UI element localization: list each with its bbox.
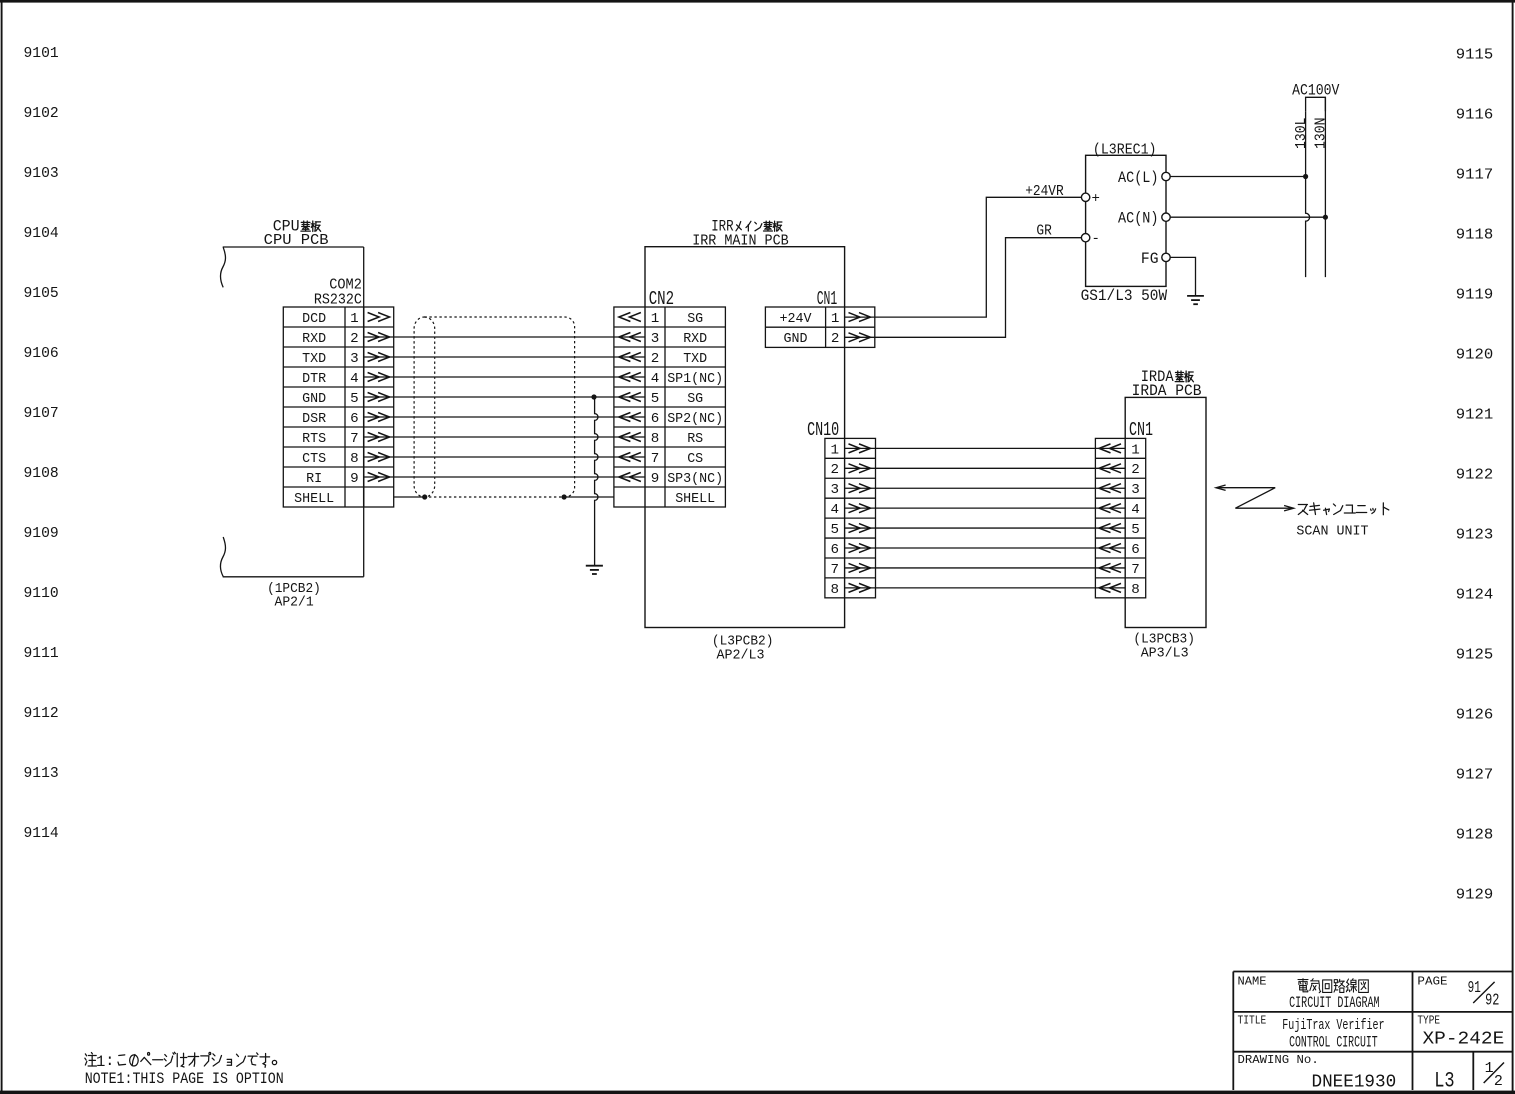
svg-text:1: 1 [1131,442,1140,458]
wire CN10 pin 8 to IRDA CN1 pin 8 [845,587,1126,589]
svg-text:2: 2 [830,462,839,478]
wire COM2 pin 3 to CN2 pin 2 [364,356,645,358]
svg-text:FG: FG [1141,250,1159,268]
svg-text:1: 1 [831,311,840,327]
svg-text:SP2(NC): SP2(NC) [667,411,723,427]
svg-text:9103: 9103 [24,165,59,182]
border frame left line [1,0,3,1094]
connector COM2 table frame [283,307,393,507]
scan unit pointer arrow [1216,488,1294,509]
svg-text:SHELL: SHELL [294,491,334,507]
wire net GR from CN1.2 to power supply - [845,238,1082,338]
wire AC(N) to 130N [1170,216,1325,218]
svg-text:9112: 9112 [24,705,59,722]
svg-text:9102: 9102 [24,105,59,122]
svg-text:6: 6 [1131,542,1140,558]
svg-text:9123: 9123 [1456,526,1494,543]
svg-text:PAGE: PAGE [1417,975,1447,988]
svg-text:RS: RS [687,431,703,447]
svg-text:2: 2 [651,351,660,367]
cable shield end cap stadium [414,317,435,497]
svg-text:5: 5 [651,391,660,407]
svg-text:8: 8 [651,431,660,447]
svg-text:2: 2 [1131,462,1140,478]
svg-text:5: 5 [350,391,359,407]
svg-text:TITLE: TITLE [1238,1015,1267,1028]
svg-text:91: 91 [1468,979,1481,998]
terminal AC(N) of GS1 [1162,213,1170,221]
wire COM2 pin 8 to CN2 pin 7 [364,456,645,458]
CPU PCB board outline U-AP2/1 [223,246,364,248]
svg-text:CN10: CN10 [807,419,839,441]
ground symbol (frame ground FG) [1187,295,1204,297]
wire CN10 pin 3 to IRDA CN1 pin 3 [845,487,1126,489]
svg-text:XP-242E: XP-242E [1423,1030,1505,1050]
wire CN10 pin 1 to IRDA CN1 pin 1 [845,447,1126,449]
svg-text:9105: 9105 [24,285,59,302]
svg-text:2: 2 [831,331,840,347]
svg-text:6: 6 [651,411,660,427]
net label 130L (rotated) [1294,118,1310,150]
svg-text:9104: 9104 [24,225,59,242]
svg-text:DSR: DSR [302,411,326,427]
svg-text:(L3REC1): (L3REC1) [1093,142,1157,159]
connector CN1 (IRDA) table frame [1095,438,1145,597]
svg-text:6: 6 [830,542,839,558]
svg-text:3: 3 [830,482,839,498]
svg-text:6: 6 [350,411,359,427]
svg-text:9: 9 [651,471,660,487]
wire 130L vertical with hop [1306,111,1310,277]
svg-text:130N: 130N [1314,118,1330,150]
terminal - of GS1 [1081,234,1089,242]
svg-text:5: 5 [830,522,839,538]
terminal FG of GS1 [1162,253,1170,261]
svg-text:DCD: DCD [302,311,326,327]
svg-text:CPU PCB: CPU PCB [264,231,329,249]
svg-text:9127: 9127 [1456,766,1494,783]
wire net +24VR from CN1.1 to power supply + [845,197,1082,317]
svg-text:DRAWING No.: DRAWING No. [1238,1053,1319,1067]
wire CN10 pin 2 to IRDA CN1 pin 2 [845,467,1126,469]
svg-text:8: 8 [350,451,359,467]
svg-text:9106: 9106 [24,345,59,362]
terminal AC(L) of GS1 [1162,172,1170,180]
svg-text:L3: L3 [1434,1068,1454,1093]
svg-text:DNEE1930: DNEE1930 [1312,1072,1397,1092]
svg-text:CIRCUIT DIAGRAM: CIRCUIT DIAGRAM [1289,994,1380,1012]
border frame bottom bar [0,1091,1515,1094]
wire SG to ground with crossover hops [595,397,598,566]
svg-text:9: 9 [350,471,359,487]
svg-text:RTS: RTS [302,431,326,447]
scan unit label スキャンユニット / SCAN UNIT [1298,504,1307,506]
svg-text:9111: 9111 [24,645,59,662]
svg-text:CTS: CTS [302,451,326,467]
svg-text:CS: CS [687,451,703,467]
svg-text:RXD: RXD [683,331,707,347]
svg-text:+24V: +24V [780,311,812,327]
junction dot AC(L)/130L [1303,174,1308,179]
svg-text:9115: 9115 [1456,46,1494,63]
svg-text:4: 4 [830,502,839,518]
svg-text:AC(L): AC(L) [1118,169,1159,187]
svg-text:9118: 9118 [1456,226,1494,243]
border frame top bar [0,0,1515,3]
svg-text:7: 7 [1131,562,1140,578]
svg-text:1: 1 [96,1053,105,1071]
svg-text:9107: 9107 [24,405,59,422]
svg-text:9122: 9122 [1456,466,1494,483]
svg-text:AP2/L3: AP2/L3 [717,647,765,663]
svg-text:SP3(NC): SP3(NC) [667,471,723,487]
svg-text:9120: 9120 [1456,346,1494,363]
svg-text:GND: GND [302,391,326,407]
IRDA PCB board outline U-AP3/L3 [1125,397,1206,627]
junction dot shield left [422,494,427,499]
svg-text:7: 7 [651,451,660,467]
svg-text:GR: GR [1036,222,1051,239]
svg-text:+24VR: +24VR [1025,183,1064,200]
svg-text:RI: RI [306,471,322,487]
power supply GS1 (L3REC1) outline [1086,155,1166,286]
svg-text:4: 4 [651,371,660,387]
CPU PCB outline break squiggle top-left [221,247,226,287]
svg-text:1: 1 [651,311,660,327]
svg-text:9126: 9126 [1456,706,1494,723]
svg-text:9121: 9121 [1456,406,1494,423]
svg-text:9125: 9125 [1456,646,1494,663]
svg-text:DTR: DTR [302,371,326,387]
svg-text:NAME: NAME [1238,975,1267,988]
connector CN10 table frame [825,438,876,597]
svg-text:TXD: TXD [683,351,707,367]
svg-text:SP1(NC): SP1(NC) [667,371,723,387]
svg-text:CN1: CN1 [1129,419,1153,441]
svg-text:AP2/1: AP2/1 [275,595,314,611]
wire COM2 pin 4 to CN2 pin 4 [364,376,645,378]
svg-text:3: 3 [1131,482,1140,498]
IRR MAIN PCB board outline U-AP2/L3 [645,247,845,628]
ground symbol (signal ground) [586,565,603,567]
svg-text:9119: 9119 [1456,286,1494,303]
wire COM2 pin 6 to CN2 pin 6 [364,416,645,418]
svg-text:3: 3 [350,351,359,367]
svg-text:FujiTrax Verifier: FujiTrax Verifier [1282,1017,1384,1034]
wire FG to frame ground [1170,257,1195,295]
junction dot AC(N)/130N [1323,215,1328,220]
svg-text:9108: 9108 [24,465,59,482]
svg-text:9117: 9117 [1456,166,1494,183]
svg-text:RXD: RXD [302,331,326,347]
title block frame [1233,971,1512,973]
svg-text:3: 3 [651,331,660,347]
AC100V bracket [1306,97,1326,111]
svg-text:1: 1 [350,311,359,327]
wire COM2 pin 7 to CN2 pin 8 [364,436,645,438]
CPU PCB outline break squiggle bottom-left [221,537,226,577]
svg-text:9124: 9124 [1456,586,1494,603]
svg-text:4: 4 [1131,502,1140,518]
wire CN10 pin 7 to IRDA CN1 pin 7 [845,567,1126,569]
border frame right line [1512,0,1514,1094]
svg-text:SG: SG [687,311,703,327]
svg-text:-: - [1092,231,1100,247]
wire CN10 pin 6 to IRDA CN1 pin 6 [845,547,1126,549]
svg-text:8: 8 [1131,582,1140,598]
svg-text:9128: 9128 [1456,826,1494,843]
net label 130N (rotated) [1314,118,1330,150]
svg-text::: : [105,1052,114,1070]
connector CN1 table frame [765,307,874,347]
svg-text:4: 4 [350,371,359,387]
wire SHELL left segment [394,496,425,498]
svg-text:9109: 9109 [24,525,59,542]
wire COM2 pin 5 to CN2 pin 5 [364,396,645,398]
svg-text:2: 2 [1494,1073,1503,1090]
wire AC(L) to 130L [1170,176,1305,178]
wire COM2 pin 9 to CN2 pin 9 [364,476,645,478]
svg-text:AC(N): AC(N) [1118,209,1159,227]
svg-text:RS232C: RS232C [314,291,362,308]
svg-text:CONTROL CIRCUIT: CONTROL CIRCUIT [1289,1034,1378,1052]
svg-text:9113: 9113 [24,765,59,782]
svg-text:TXD: TXD [302,351,326,367]
svg-text:9101: 9101 [24,45,59,62]
wire SHELL right segment [564,496,614,498]
terminal + of GS1 [1081,193,1089,201]
wire 130N vertical [1324,97,1326,277]
svg-text:9110: 9110 [24,585,59,602]
svg-text:92: 92 [1485,992,1499,1011]
wire COM2 pin 2 to CN2 pin 3 [364,336,645,338]
svg-text:9114: 9114 [24,825,59,842]
svg-text:9116: 9116 [1456,106,1494,123]
svg-text:7: 7 [830,562,839,578]
svg-text:+: + [1092,191,1100,207]
svg-text:TYPE: TYPE [1417,1015,1440,1028]
svg-text:NOTE1:THIS PAGE IS OPTION: NOTE1:THIS PAGE IS OPTION [85,1070,284,1088]
cable shield (dotted capsule) [424,317,574,497]
svg-text:8: 8 [830,582,839,598]
wire CN10 pin 5 to IRDA CN1 pin 5 [845,527,1126,529]
svg-text:AP3/L3: AP3/L3 [1141,645,1189,661]
svg-text:1: 1 [830,442,839,458]
wire CN10 pin 4 to IRDA CN1 pin 4 [845,507,1126,509]
svg-text:SCAN UNIT: SCAN UNIT [1296,524,1368,540]
junction dot shield right [562,494,567,499]
svg-text:GS1/L3 50W: GS1/L3 50W [1081,287,1168,305]
svg-text:7: 7 [350,431,359,447]
junction dot on SG wire (node SG) [591,394,596,399]
svg-text:5: 5 [1131,522,1140,538]
connector CN2 table frame [614,307,726,507]
svg-text:9129: 9129 [1456,886,1494,903]
svg-text:130L: 130L [1294,118,1310,150]
svg-text:SG: SG [687,391,703,407]
svg-text:2: 2 [350,331,359,347]
note 1 Japanese: 注1:このページはオプションです。 [85,1054,86,1056]
svg-text:SHELL: SHELL [675,491,715,507]
svg-text:GND: GND [784,331,808,347]
